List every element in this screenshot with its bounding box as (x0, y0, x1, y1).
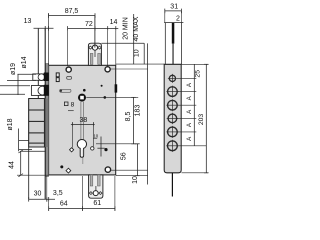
rivet dot upper right (101, 85, 103, 87)
dim 56 vertical (136, 144, 138, 176)
small slot capsule upper (67, 76, 72, 79)
hole s2 (168, 87, 178, 97)
euro cylinder keyhole (77, 140, 86, 158)
38 extension lines down (72, 127, 74, 148)
svg-text:203: 203 (198, 114, 205, 126)
svg-text:61: 61 (93, 200, 101, 207)
top latch slot (88, 43, 101, 65)
body bottom extension right (116, 175, 148, 177)
rod upper (ø14) (33, 74, 44, 80)
svg-text:8: 8 (71, 102, 75, 109)
long projection vertical (147, 43, 149, 184)
follower slot lines down (80, 102, 82, 140)
svg-text:ø18: ø18 (7, 118, 14, 130)
top right vertical c (143, 43, 145, 64)
bottom slot stub line (95, 186, 97, 191)
svg-text:64: 64 (60, 201, 68, 208)
slot top extension line (101, 42, 144, 44)
black latch mark right edge (115, 84, 118, 92)
faceplate strip (164, 64, 181, 173)
line under block (21, 150, 46, 152)
faceplate dark behind block (45, 99, 48, 148)
svg-text:10: 10 (132, 176, 139, 184)
svg-text:10: 10 (134, 49, 141, 57)
black dot right of cross (104, 148, 107, 151)
extension right edge down (114, 176, 116, 211)
rivet dot above follower (83, 89, 86, 92)
hole s5 (168, 127, 178, 137)
left view: block left edge extension (28, 99, 30, 200)
svg-text:38: 38 (80, 117, 88, 124)
dim line 8,5 vertical (133, 97, 135, 143)
extension from top-left hole (67, 31, 69, 66)
black dot bottom-left (60, 165, 63, 168)
dim lines left od14/od19 (18, 73, 37, 75)
bottom slot inner bar left (90, 175, 93, 186)
bottom slot wing right (99, 192, 102, 195)
extension right edge up (115, 31, 117, 66)
bottom slot roller circle (93, 191, 98, 196)
rod lower (ø19) (31, 86, 44, 96)
diamond bottom-left (66, 168, 71, 173)
203 dim line (205, 64, 207, 173)
line below keyhole (82, 158, 84, 165)
top slot inner bar left (90, 53, 93, 64)
cylinder extension line right (96, 143, 138, 145)
svg-text:56: 56 (121, 152, 128, 160)
extension from top-right hole up (107, 31, 109, 66)
follower square hub (78, 94, 86, 102)
left view: long vertical line A (37, 29, 39, 99)
bottom slot inner bar right (98, 175, 101, 186)
svg-text:10: 10 (93, 133, 98, 138)
dim 13 line (34, 27, 54, 29)
extension verticals (164, 11, 166, 23)
rod extension line through top slot (94, 16, 96, 48)
svg-text:ø19: ø19 (10, 63, 17, 75)
svg-text:13: 13 (24, 18, 32, 25)
dim 87,5 line (49, 15, 95, 17)
svg-text:2: 2 (176, 15, 180, 22)
top slot wing right (98, 46, 101, 49)
body bottom extension left (17, 174, 49, 176)
square 8 label (64, 102, 68, 106)
A chain dim line (193, 64, 195, 146)
hole s4 (168, 114, 177, 123)
inner verticals (164, 23, 166, 65)
top slot wing left (89, 46, 92, 49)
line 2-dim (164, 22, 183, 24)
bolt stack block (29, 99, 45, 148)
hole s3 (168, 100, 178, 110)
svg-text:44: 44 (8, 161, 15, 169)
svg-text:25: 25 (195, 70, 202, 78)
svg-text:72: 72 (85, 21, 93, 28)
svg-text:ø14: ø14 (21, 56, 28, 68)
svg-text:87,5: 87,5 (65, 8, 79, 15)
follower extension line right (86, 96, 138, 98)
strip holes with crosshairs (166, 74, 178, 152)
top right vertical d (133, 14, 135, 64)
svg-text:14: 14 (110, 19, 118, 26)
faceplate side view strip (45, 64, 48, 177)
cross mark (100, 137, 102, 157)
hole bottom-right (105, 167, 110, 172)
capsule mid (60, 89, 71, 92)
strip top extension to 203 dim (182, 63, 209, 65)
top slot inner bar right (98, 53, 101, 64)
bottom slot wing left (89, 192, 92, 195)
svg-text:40 MAX: 40 MAX (133, 16, 140, 41)
hole s1 (169, 75, 175, 81)
left view: long vertical line B (44, 29, 46, 200)
twin square holes (56, 73, 59, 77)
bottom slot (89, 175, 103, 198)
extension 48.7 down (48, 202, 50, 211)
rivet dot on follower line (104, 96, 107, 99)
svg-text:30: 30 (34, 191, 42, 198)
bottom rod of strip (171, 173, 173, 197)
bottom hole extension right (111, 169, 148, 171)
small circle right of keyhole (91, 147, 94, 150)
hole s6 (168, 141, 178, 151)
svg-text:183: 183 (134, 105, 141, 117)
svg-text:3,5: 3,5 (53, 190, 63, 197)
svg-text:31: 31 (170, 4, 178, 11)
hole extensions right (177, 77, 196, 79)
hole top-left (66, 67, 71, 72)
svg-text:8,5: 8,5 (125, 112, 132, 122)
extensions from body top right (116, 63, 164, 65)
strip bottom extension (182, 172, 209, 174)
diamond marker below 38 left extension (70, 148, 74, 152)
main lock body (49, 65, 116, 175)
extension left edge up (48, 13, 50, 65)
top rod black (172, 23, 175, 44)
top slot roller circle (92, 45, 97, 50)
extension 46.8 down (46, 176, 48, 202)
hole top-right (105, 67, 110, 72)
top slot stub line (94, 50, 96, 57)
dim 72/14 line (68, 27, 119, 29)
extension cylinder center down (82, 176, 84, 211)
svg-text:20 MIN: 20 MIN (123, 17, 130, 40)
